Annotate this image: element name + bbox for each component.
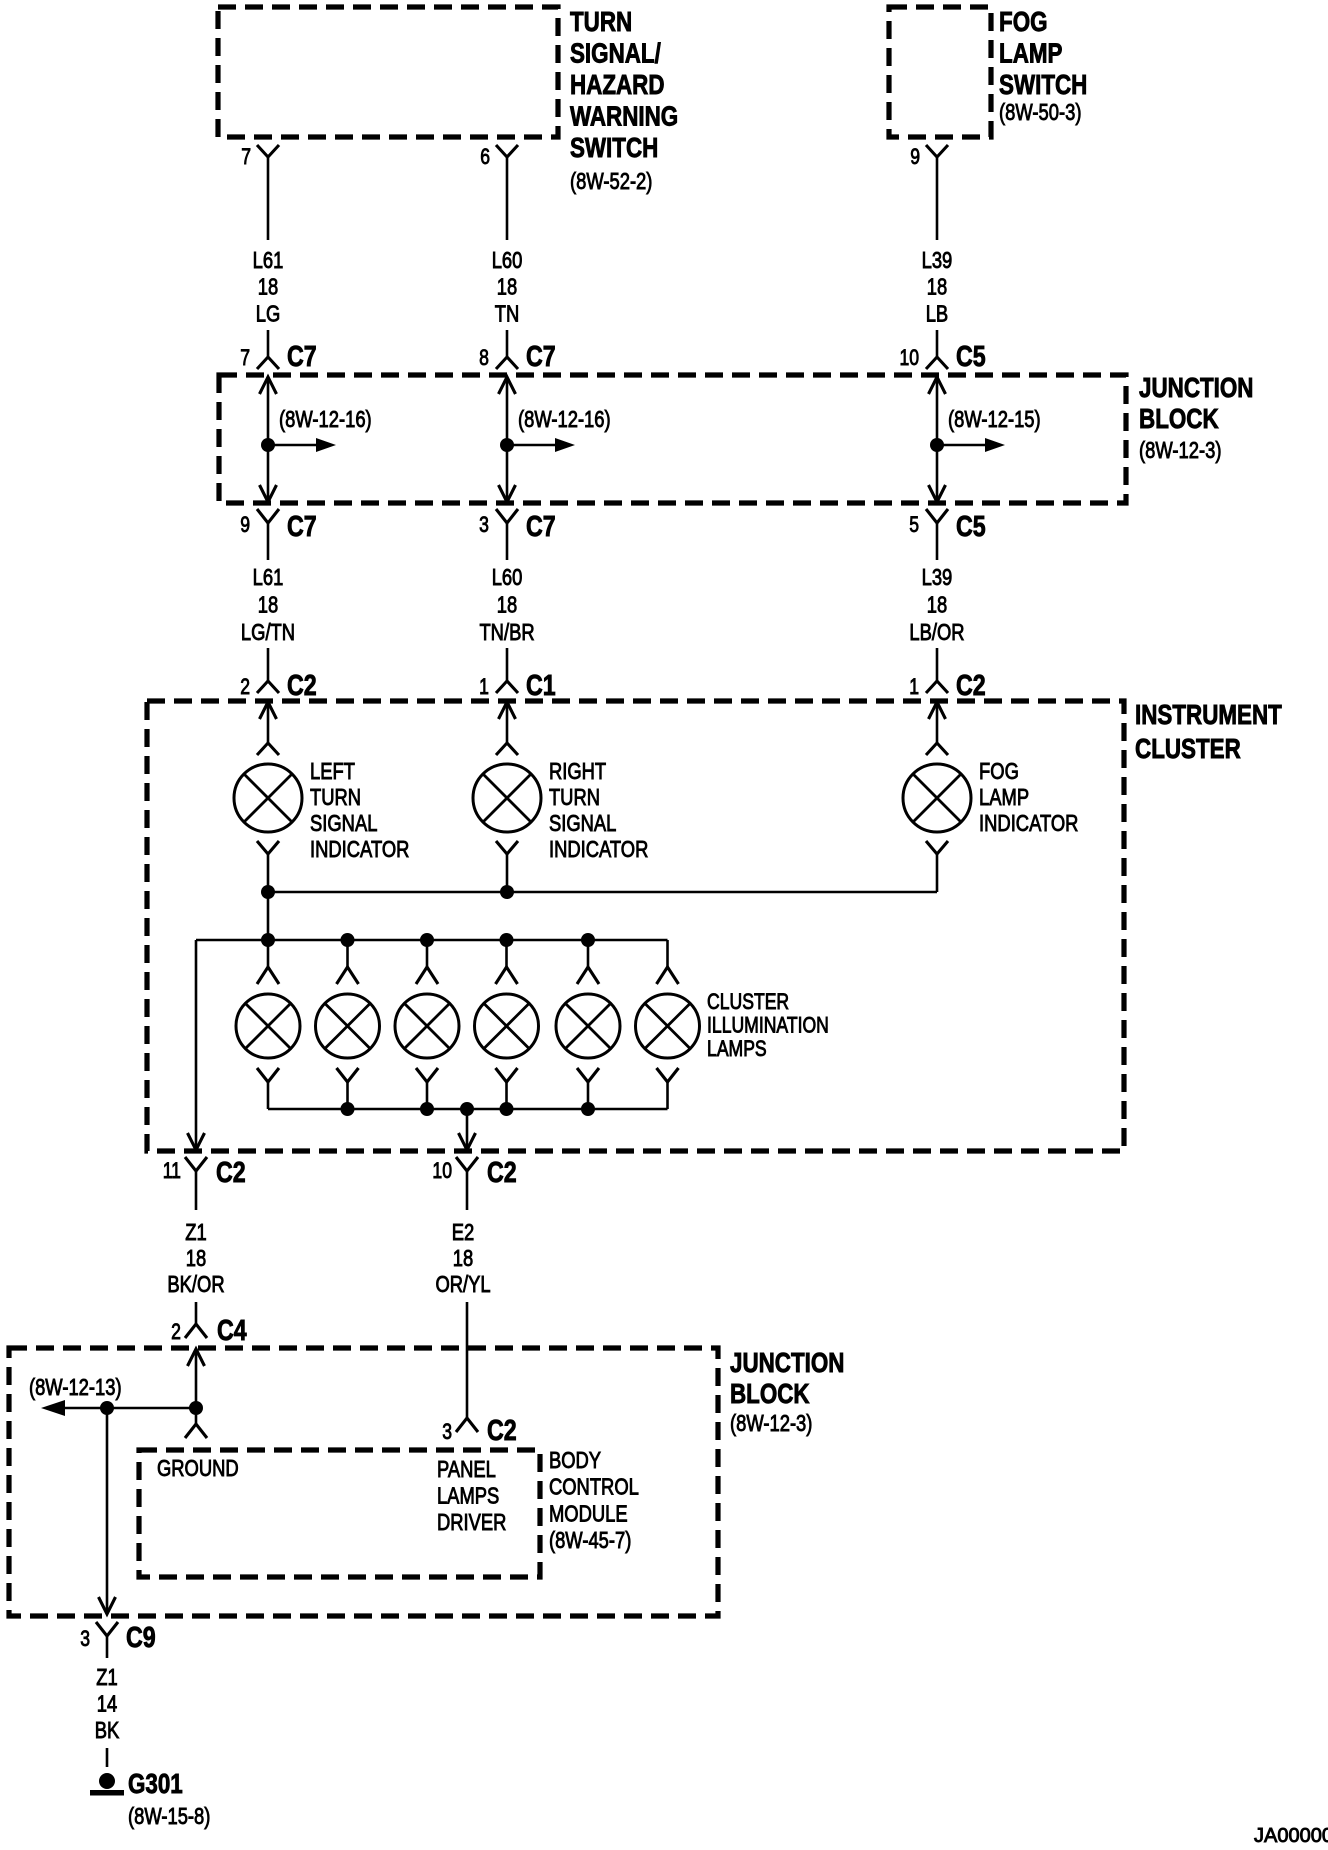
svg-text:(8W-12-3): (8W-12-3): [1139, 438, 1221, 463]
svg-text:BLOCK: BLOCK: [730, 1379, 810, 1410]
svg-text:Z1: Z1: [185, 1220, 206, 1245]
svg-text:SWITCH: SWITCH: [999, 70, 1087, 101]
svg-text:LAMPS: LAMPS: [437, 1484, 499, 1509]
svg-text:ILLUMINATION: ILLUMINATION: [707, 1014, 829, 1038]
svg-text:MODULE: MODULE: [549, 1502, 628, 1527]
svg-text:C5: C5: [956, 339, 986, 372]
svg-text:1: 1: [909, 675, 919, 699]
svg-text:FOG: FOG: [999, 7, 1048, 38]
svg-text:RIGHT: RIGHT: [549, 759, 606, 784]
svg-text:3: 3: [479, 513, 489, 537]
svg-text:G301: G301: [128, 1769, 183, 1800]
svg-text:Z1: Z1: [96, 1665, 117, 1690]
svg-text:L60: L60: [492, 565, 523, 590]
svg-text:5: 5: [909, 513, 919, 537]
svg-text:LAMPS: LAMPS: [707, 1037, 767, 1061]
svg-text:CONTROL: CONTROL: [549, 1475, 639, 1500]
svg-text:JUNCTION: JUNCTION: [730, 1348, 844, 1379]
svg-text:C2: C2: [487, 1413, 517, 1446]
svg-text:C4: C4: [217, 1313, 247, 1346]
svg-text:C7: C7: [287, 509, 317, 542]
svg-text:3: 3: [80, 1627, 90, 1651]
svg-text:3: 3: [442, 1420, 452, 1444]
svg-text:18: 18: [497, 593, 517, 618]
svg-text:BLOCK: BLOCK: [1139, 404, 1219, 435]
svg-text:LG: LG: [256, 302, 281, 327]
svg-text:(8W-45-7): (8W-45-7): [549, 1528, 631, 1553]
svg-text:SIGNAL/: SIGNAL/: [570, 38, 661, 69]
svg-text:LAMP: LAMP: [999, 38, 1063, 69]
svg-text:10: 10: [432, 1159, 452, 1183]
svg-text:(8W-52-2): (8W-52-2): [570, 169, 652, 194]
svg-text:FOG: FOG: [979, 759, 1019, 784]
svg-text:CLUSTER: CLUSTER: [1135, 734, 1241, 765]
svg-text:(8W-12-16): (8W-12-16): [518, 407, 611, 432]
svg-text:SWITCH: SWITCH: [570, 133, 658, 164]
svg-text:L39: L39: [922, 565, 953, 590]
svg-text:LB/OR: LB/OR: [909, 620, 964, 645]
svg-text:(8W-12-3): (8W-12-3): [730, 1411, 812, 1436]
svg-text:(8W-50-3): (8W-50-3): [999, 100, 1081, 125]
svg-text:LG/TN: LG/TN: [241, 620, 295, 645]
svg-text:GROUND: GROUND: [157, 1456, 239, 1481]
svg-text:INDICATOR: INDICATOR: [310, 837, 409, 862]
svg-text:14: 14: [97, 1692, 117, 1717]
svg-text:18: 18: [258, 275, 278, 300]
svg-text:C7: C7: [287, 339, 317, 372]
svg-text:LB: LB: [926, 302, 949, 327]
svg-text:TURN: TURN: [310, 785, 361, 810]
svg-text:C2: C2: [287, 668, 317, 701]
svg-text:18: 18: [497, 275, 517, 300]
svg-text:LAMP: LAMP: [979, 785, 1029, 810]
svg-text:DRIVER: DRIVER: [437, 1510, 506, 1535]
svg-text:10: 10: [899, 346, 919, 370]
svg-text:C2: C2: [216, 1155, 246, 1188]
svg-text:JUNCTION: JUNCTION: [1139, 373, 1253, 404]
svg-text:18: 18: [186, 1246, 206, 1271]
svg-text:2: 2: [171, 1320, 181, 1344]
svg-text:L60: L60: [492, 248, 523, 273]
svg-text:6: 6: [480, 145, 490, 169]
svg-text:C2: C2: [487, 1155, 517, 1188]
svg-text:18: 18: [453, 1246, 473, 1271]
svg-text:18: 18: [927, 275, 947, 300]
svg-text:1: 1: [479, 675, 489, 699]
svg-text:JA000000: JA000000: [1254, 1825, 1328, 1847]
svg-text:TURN: TURN: [549, 785, 600, 810]
svg-text:C7: C7: [526, 339, 556, 372]
svg-text:E2: E2: [452, 1220, 475, 1245]
svg-text:(8W-15-8): (8W-15-8): [128, 1804, 210, 1829]
svg-text:2: 2: [240, 675, 250, 699]
svg-text:SIGNAL: SIGNAL: [549, 811, 616, 836]
svg-text:(8W-12-16): (8W-12-16): [279, 407, 372, 432]
svg-text:LEFT: LEFT: [310, 759, 355, 784]
svg-text:TN/BR: TN/BR: [479, 620, 534, 645]
svg-text:BK/OR: BK/OR: [167, 1272, 224, 1297]
svg-text:7: 7: [241, 145, 251, 169]
svg-text:INDICATOR: INDICATOR: [549, 837, 648, 862]
svg-text:INSTRUMENT: INSTRUMENT: [1135, 700, 1282, 731]
svg-text:L61: L61: [253, 565, 284, 590]
svg-text:C2: C2: [956, 668, 986, 701]
svg-text:PANEL: PANEL: [437, 1457, 496, 1482]
svg-text:C9: C9: [126, 1620, 156, 1653]
svg-text:OR/YL: OR/YL: [435, 1272, 490, 1297]
svg-text:9: 9: [240, 513, 250, 537]
svg-text:(8W-12-13): (8W-12-13): [29, 1375, 122, 1400]
svg-text:18: 18: [258, 593, 278, 618]
svg-text:INDICATOR: INDICATOR: [979, 811, 1078, 836]
svg-text:18: 18: [927, 593, 947, 618]
svg-text:8: 8: [479, 346, 489, 370]
svg-text:C7: C7: [526, 509, 556, 542]
svg-text:7: 7: [240, 346, 250, 370]
svg-text:TN: TN: [495, 302, 520, 327]
svg-text:CLUSTER: CLUSTER: [707, 990, 789, 1014]
svg-text:C5: C5: [956, 509, 986, 542]
svg-text:TURN: TURN: [570, 7, 632, 38]
svg-text:L61: L61: [253, 248, 284, 273]
svg-text:C1: C1: [526, 668, 556, 701]
svg-text:9: 9: [910, 145, 920, 169]
svg-text:(8W-12-15): (8W-12-15): [948, 407, 1041, 432]
svg-text:BK: BK: [95, 1718, 120, 1743]
svg-text:L39: L39: [922, 248, 953, 273]
svg-text:SIGNAL: SIGNAL: [310, 811, 377, 836]
svg-text:BODY: BODY: [549, 1448, 601, 1473]
svg-text:WARNING: WARNING: [570, 101, 678, 132]
svg-text:HAZARD: HAZARD: [570, 70, 665, 101]
svg-text:11: 11: [163, 1159, 181, 1183]
